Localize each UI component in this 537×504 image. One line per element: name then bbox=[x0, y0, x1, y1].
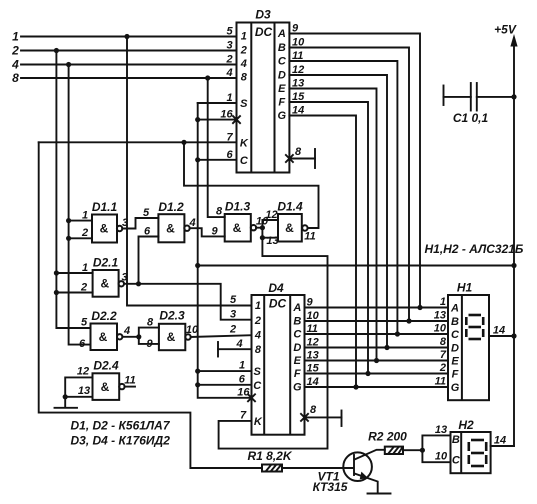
gate D1.1 bbox=[92, 200, 122, 243]
svg-text:C1 0,1: C1 0,1 bbox=[453, 111, 489, 125]
junction D2.1 input 1 bbox=[54, 270, 59, 275]
svg-text:F: F bbox=[278, 97, 285, 109]
svg-text:R2 200: R2 200 bbox=[368, 430, 407, 444]
wire H2 pin 14 to +5V rail bbox=[491, 435, 514, 447]
wire R2 to H2 bbox=[403, 449, 422, 451]
gate D1.4 bbox=[277, 200, 307, 242]
wire D2.3 input tie bar bbox=[139, 328, 159, 344]
svg-text:2: 2 bbox=[81, 227, 88, 239]
svg-text:8: 8 bbox=[216, 206, 223, 218]
svg-text:K: K bbox=[254, 416, 263, 428]
pin number D2.3 9 bbox=[146, 338, 153, 350]
svg-text:D1.1: D1.1 bbox=[92, 200, 118, 214]
wire D3 pin S bbox=[198, 102, 237, 104]
wire H2 input tie bar bbox=[422, 424, 450, 463]
svg-text:1: 1 bbox=[440, 296, 446, 308]
pin 16 cross mark D4 bbox=[248, 394, 255, 401]
wire D1.4 output to K line bbox=[184, 142, 319, 228]
pin numbers H1 left bbox=[434, 296, 447, 388]
gate D2.4 bbox=[93, 359, 125, 400]
junction D1.4 pin 13 bbox=[260, 235, 265, 240]
svg-text:4: 4 bbox=[225, 67, 232, 79]
svg-text:C: C bbox=[240, 155, 249, 167]
wire D2.4 to ground bbox=[64, 397, 66, 407]
wire D2.1 input 1 bbox=[56, 262, 92, 274]
junction input-8 bus bbox=[205, 75, 210, 80]
svg-text:C: C bbox=[253, 380, 262, 392]
svg-text:12: 12 bbox=[265, 209, 277, 221]
junction H2 input tie bbox=[420, 448, 425, 453]
svg-text:C: C bbox=[452, 455, 461, 467]
resistor R2 bbox=[368, 430, 407, 455]
wire bus input-1 down to D4 pin 5 bbox=[127, 37, 252, 306]
pin numbers D3 right bbox=[292, 23, 305, 117]
svg-text:6: 6 bbox=[239, 373, 246, 385]
wire bus input-2 down to D2.2 pin 5 bbox=[56, 51, 90, 329]
svg-text:9: 9 bbox=[146, 338, 153, 350]
pin numbers D3 left bbox=[220, 26, 233, 161]
svg-text:&: & bbox=[285, 221, 294, 235]
resistor R1 bbox=[247, 449, 292, 472]
svg-text:D1, D2 - К561ЛА7: D1, D2 - К561ЛА7 bbox=[71, 419, 171, 433]
junction bus C bbox=[395, 331, 400, 336]
wire left rail to R1 bbox=[39, 142, 262, 468]
svg-text:2: 2 bbox=[11, 44, 19, 58]
decoder D4 bbox=[252, 281, 305, 435]
wire +5V feed line bbox=[198, 265, 514, 267]
svg-text:4: 4 bbox=[11, 58, 19, 72]
svg-text:10: 10 bbox=[186, 324, 199, 336]
wire D1.1 input 1 bbox=[69, 210, 92, 222]
svg-text:&: & bbox=[99, 330, 108, 344]
wire input 2 to D3 pin 3 bbox=[21, 50, 237, 52]
gate D2.1 bbox=[93, 256, 124, 297]
terminal D4 pin 8 bbox=[341, 411, 343, 427]
svg-text:+5V: +5V bbox=[494, 23, 517, 37]
wire to D1.4 pin 12 bbox=[262, 209, 278, 228]
wire D3 pin C bbox=[198, 159, 237, 161]
junction bus F bbox=[365, 371, 370, 376]
junction bus D bbox=[384, 345, 389, 350]
svg-text:D4: D4 bbox=[268, 281, 284, 295]
svg-text:C: C bbox=[451, 329, 460, 341]
pin number D2.2 5 bbox=[81, 317, 88, 329]
pin number D1.2 5 bbox=[143, 207, 150, 219]
svg-text:8: 8 bbox=[241, 72, 248, 84]
wire D2.4 input tie bar bbox=[65, 366, 92, 398]
wire D3 output G bbox=[289, 116, 356, 388]
svg-text:3: 3 bbox=[121, 272, 127, 284]
svg-text:&: & bbox=[100, 277, 109, 291]
pin number D3 8 bbox=[295, 146, 302, 158]
svg-text:КТ315: КТ315 bbox=[313, 480, 348, 494]
svg-text:12: 12 bbox=[77, 366, 89, 378]
svg-text:E: E bbox=[451, 356, 459, 368]
svg-text:8: 8 bbox=[12, 71, 19, 85]
svg-text:D2.4: D2.4 bbox=[93, 359, 119, 373]
svg-text:8: 8 bbox=[295, 146, 302, 158]
note parts list bbox=[71, 419, 171, 448]
svg-text:4: 4 bbox=[254, 330, 261, 342]
svg-text:DC: DC bbox=[255, 25, 273, 39]
svg-text:11: 11 bbox=[304, 231, 315, 243]
svg-text:B: B bbox=[452, 434, 460, 446]
junction bus E bbox=[374, 358, 379, 363]
gate D1.2 bbox=[158, 200, 189, 242]
svg-text:2: 2 bbox=[225, 54, 232, 66]
junction D2.1 input 2 bbox=[54, 290, 59, 295]
svg-text:2: 2 bbox=[229, 324, 236, 336]
svg-text:2: 2 bbox=[80, 282, 87, 294]
svg-text:13: 13 bbox=[435, 424, 447, 436]
wire S/C common vertical to +5V bbox=[198, 103, 252, 398]
wire D3 output C bbox=[289, 61, 397, 334]
seven segment digit H2 bbox=[469, 440, 486, 466]
pin numbers D4 right bbox=[307, 297, 320, 389]
svg-text:3: 3 bbox=[226, 40, 232, 52]
wire D1.2 input 6 from D2.1 output bbox=[139, 226, 159, 284]
wire segment display line F bbox=[305, 373, 449, 375]
svg-text:G: G bbox=[451, 382, 460, 394]
wire to D1.4 pin 13 bbox=[262, 228, 278, 247]
svg-text:13: 13 bbox=[78, 385, 90, 397]
svg-text:2: 2 bbox=[439, 362, 446, 374]
junction K line bbox=[181, 140, 186, 145]
svg-text:B: B bbox=[451, 316, 459, 328]
pin number D4 8 bbox=[310, 404, 317, 416]
pin 16 cross mark D3 bbox=[233, 116, 240, 123]
svg-text:D1.3: D1.3 bbox=[225, 200, 251, 214]
pin number D1.3 9 bbox=[211, 226, 218, 238]
transistor VT1 bbox=[313, 450, 385, 494]
wire D2.4 output stub bbox=[124, 375, 135, 387]
display H1 bbox=[448, 281, 489, 401]
svg-text:8: 8 bbox=[440, 336, 447, 348]
svg-text:1: 1 bbox=[241, 31, 247, 43]
svg-text:8: 8 bbox=[310, 404, 317, 416]
svg-text:D2.2: D2.2 bbox=[91, 309, 117, 323]
decoder D3 bbox=[237, 8, 290, 173]
junction D1.2 input 6 bbox=[136, 281, 141, 286]
svg-text:D1.4: D1.4 bbox=[277, 200, 303, 214]
svg-text:H2: H2 bbox=[458, 418, 474, 432]
wire D3 output D bbox=[289, 75, 387, 348]
junction bus A bbox=[417, 305, 422, 310]
svg-text:4: 4 bbox=[188, 217, 195, 229]
svg-text:DC: DC bbox=[269, 297, 287, 311]
wire D3 pin 16 bbox=[198, 119, 237, 121]
svg-text:5: 5 bbox=[81, 317, 88, 329]
svg-text:&: & bbox=[100, 222, 109, 236]
wire D1.3 output bbox=[256, 216, 269, 228]
svg-text:D2.1: D2.1 bbox=[93, 256, 119, 270]
gate D2.2 bbox=[91, 309, 123, 350]
wire input 8 to D3 pin 4 bbox=[21, 77, 237, 79]
wire R1 to VT1 base bbox=[282, 467, 353, 469]
svg-text:E: E bbox=[278, 83, 286, 95]
junction D4 pin C bbox=[195, 382, 200, 387]
svg-text:11: 11 bbox=[124, 375, 135, 387]
svg-text:H1: H1 bbox=[457, 281, 473, 295]
wire D1.3 output to D4 pin K bbox=[219, 238, 328, 449]
terminal C1 left bbox=[443, 86, 445, 106]
junction +5V rail bbox=[511, 263, 516, 268]
svg-text:6: 6 bbox=[144, 226, 151, 238]
svg-text:7: 7 bbox=[240, 410, 247, 422]
wire segment display line A bbox=[305, 307, 449, 309]
junction D2.4 inputs to ground bbox=[63, 394, 68, 399]
svg-text:3: 3 bbox=[122, 217, 128, 229]
svg-text:4: 4 bbox=[123, 325, 130, 337]
junction input-2 bus bbox=[54, 48, 59, 53]
wire D1.1 input 2 bbox=[69, 227, 92, 239]
svg-text:3: 3 bbox=[230, 309, 236, 321]
svg-text:16: 16 bbox=[237, 387, 250, 399]
note display type bbox=[425, 242, 524, 256]
pin number D1.4 11 bbox=[304, 231, 315, 243]
svg-text:D: D bbox=[451, 343, 459, 355]
wire bus input-8 down to D1.3 pin 8 bbox=[208, 78, 225, 217]
svg-text:D: D bbox=[278, 70, 286, 82]
svg-text:D3, D4 - К176ИД2: D3, D4 - К176ИД2 bbox=[71, 433, 171, 447]
svg-text:S: S bbox=[240, 98, 248, 110]
svg-text:6: 6 bbox=[79, 338, 86, 350]
wire D3 output B bbox=[289, 48, 409, 322]
svg-text:A: A bbox=[450, 303, 459, 315]
junction D1.3 output bbox=[260, 225, 265, 230]
wire D4 pin 8 bbox=[305, 416, 342, 418]
svg-text:1: 1 bbox=[82, 262, 88, 274]
svg-text:4: 4 bbox=[240, 58, 247, 70]
svg-text:S: S bbox=[254, 366, 262, 378]
svg-text:1: 1 bbox=[239, 360, 245, 372]
svg-text:5: 5 bbox=[226, 26, 233, 38]
svg-text:14: 14 bbox=[493, 325, 505, 337]
junction S/C at +5V line bbox=[195, 263, 200, 268]
svg-text:F: F bbox=[452, 369, 459, 381]
svg-text:G: G bbox=[278, 110, 287, 122]
node input 2 bbox=[11, 44, 19, 58]
junction D1.1 input 1 bbox=[66, 218, 71, 223]
power +5V rail bbox=[513, 40, 515, 446]
svg-text:B: B bbox=[278, 42, 286, 54]
svg-text:11: 11 bbox=[435, 376, 446, 388]
svg-text:&: & bbox=[167, 330, 176, 344]
wire D4 pin C bbox=[198, 384, 252, 386]
gate D1.3 bbox=[225, 200, 257, 242]
svg-text:1: 1 bbox=[255, 300, 261, 312]
svg-text:2: 2 bbox=[240, 45, 247, 57]
svg-text:R1 8,2K: R1 8,2K bbox=[247, 449, 292, 463]
wire D2.2 output to D2.3 inputs bbox=[122, 325, 138, 337]
svg-text:8: 8 bbox=[147, 317, 154, 329]
terminal D4 pin 4 bbox=[217, 342, 219, 357]
svg-text:C: C bbox=[278, 56, 287, 68]
svg-text:5: 5 bbox=[143, 207, 150, 219]
wire segment display line D bbox=[305, 347, 449, 349]
wire D3 pin 8 bbox=[289, 158, 315, 160]
svg-text:H1,H2 - АЛС321Б: H1,H2 - АЛС321Б bbox=[425, 242, 524, 256]
power +5V arrow bbox=[494, 23, 517, 47]
svg-text:5: 5 bbox=[230, 294, 237, 306]
svg-text:10: 10 bbox=[434, 323, 447, 335]
svg-text:13: 13 bbox=[434, 310, 446, 322]
svg-text:D2.3: D2.3 bbox=[159, 309, 185, 323]
node input 8 bbox=[12, 71, 19, 85]
svg-text:2: 2 bbox=[254, 315, 261, 327]
node input 4 bbox=[11, 58, 19, 72]
svg-text:10: 10 bbox=[435, 451, 448, 463]
wire H1 pin 14 to +5V rail bbox=[489, 325, 514, 337]
svg-text:B: B bbox=[293, 316, 301, 328]
junction bus G bbox=[353, 384, 358, 389]
svg-text:1: 1 bbox=[82, 210, 88, 222]
ground D2.4 bbox=[55, 407, 78, 409]
wire segment display line C bbox=[305, 333, 449, 335]
wire D2.3 output to D4 pin 2 bbox=[186, 324, 252, 337]
pin number D2.2 6 bbox=[79, 338, 86, 350]
svg-text:9: 9 bbox=[211, 226, 218, 238]
pin number D2.3 8 bbox=[147, 317, 154, 329]
svg-text:&: & bbox=[233, 221, 242, 235]
wire D4 pin S bbox=[198, 370, 252, 372]
wire segment display line E bbox=[305, 360, 449, 362]
junction D3 pin 16 bbox=[195, 117, 200, 122]
wire D3 output A bbox=[289, 34, 420, 308]
svg-text:8: 8 bbox=[255, 344, 262, 356]
svg-text:&: & bbox=[101, 380, 110, 394]
capacitor C1 bbox=[444, 83, 515, 125]
wire D3 output E bbox=[289, 89, 376, 361]
wire input 4 to D3 pin 2 bbox=[21, 64, 237, 66]
ground VT1 emitter bbox=[368, 493, 391, 495]
wire D4 pin 4 terminal bbox=[218, 348, 252, 350]
pin number D1.3 8 bbox=[216, 206, 223, 218]
junction bus B bbox=[406, 318, 411, 323]
svg-text:A: A bbox=[292, 302, 301, 314]
wire D2.1 input 2 bbox=[56, 282, 92, 294]
svg-text:D1.2: D1.2 bbox=[158, 200, 184, 214]
wire D1.2 output to D1.3 pin 9 bbox=[188, 217, 224, 236]
wire K line to D3 pin 7 bbox=[39, 141, 237, 143]
junction input-4 bus bbox=[66, 62, 71, 67]
svg-text:1: 1 bbox=[12, 30, 19, 44]
wire D3 output F bbox=[289, 102, 368, 374]
svg-text:D3: D3 bbox=[255, 8, 271, 22]
svg-text:A: A bbox=[277, 28, 286, 40]
junction D2.3 input tie bbox=[136, 334, 141, 339]
wire bus input-4 down to D2.2 pin 6 bbox=[69, 65, 91, 345]
svg-text:E: E bbox=[294, 355, 302, 367]
seven segment digit H1 bbox=[466, 315, 483, 339]
terminal D3 pin 8 bbox=[314, 149, 316, 168]
svg-text:C: C bbox=[293, 329, 302, 341]
svg-text:K: K bbox=[240, 137, 249, 149]
svg-text:F: F bbox=[294, 368, 301, 380]
junction input-1 bus bbox=[124, 34, 129, 39]
svg-text:4: 4 bbox=[235, 338, 242, 350]
gate D2.3 bbox=[159, 309, 191, 351]
junction D1.1 input 2 bbox=[66, 236, 71, 241]
wire segment display line B bbox=[305, 320, 449, 322]
wire D1.1 output to D1.2 pin 5 bbox=[122, 217, 158, 229]
pin 8 cross mark D3 bbox=[286, 155, 293, 162]
svg-text:7: 7 bbox=[440, 349, 447, 361]
display H2 bbox=[451, 418, 491, 473]
junction H1 pin 14 bbox=[511, 333, 516, 338]
svg-text:G: G bbox=[293, 382, 302, 394]
svg-text:D: D bbox=[293, 342, 301, 354]
svg-text:14: 14 bbox=[494, 435, 506, 447]
svg-text:&: & bbox=[166, 222, 175, 236]
junction C1 at rail bbox=[511, 94, 516, 99]
node input 1 bbox=[12, 30, 19, 44]
junction D3 pin C bbox=[195, 157, 200, 162]
svg-text:13: 13 bbox=[266, 235, 278, 247]
pin 8 cross mark D4 bbox=[301, 414, 308, 421]
wire segment display line G bbox=[305, 386, 449, 388]
wire input 1 to D3 pin 5 bbox=[21, 36, 237, 38]
pin numbers D4 left bbox=[229, 294, 250, 422]
junction D4 pin S bbox=[195, 369, 200, 374]
wire D2.1 output to D4 pin 3 bbox=[121, 272, 251, 320]
